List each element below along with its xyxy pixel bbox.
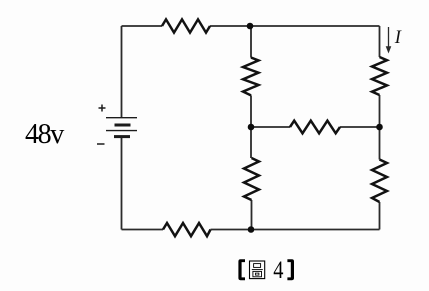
svg-text:I: I [394, 28, 402, 48]
svg-text:4: 4 [273, 255, 284, 284]
svg-text:48v: 48v [25, 119, 64, 150]
